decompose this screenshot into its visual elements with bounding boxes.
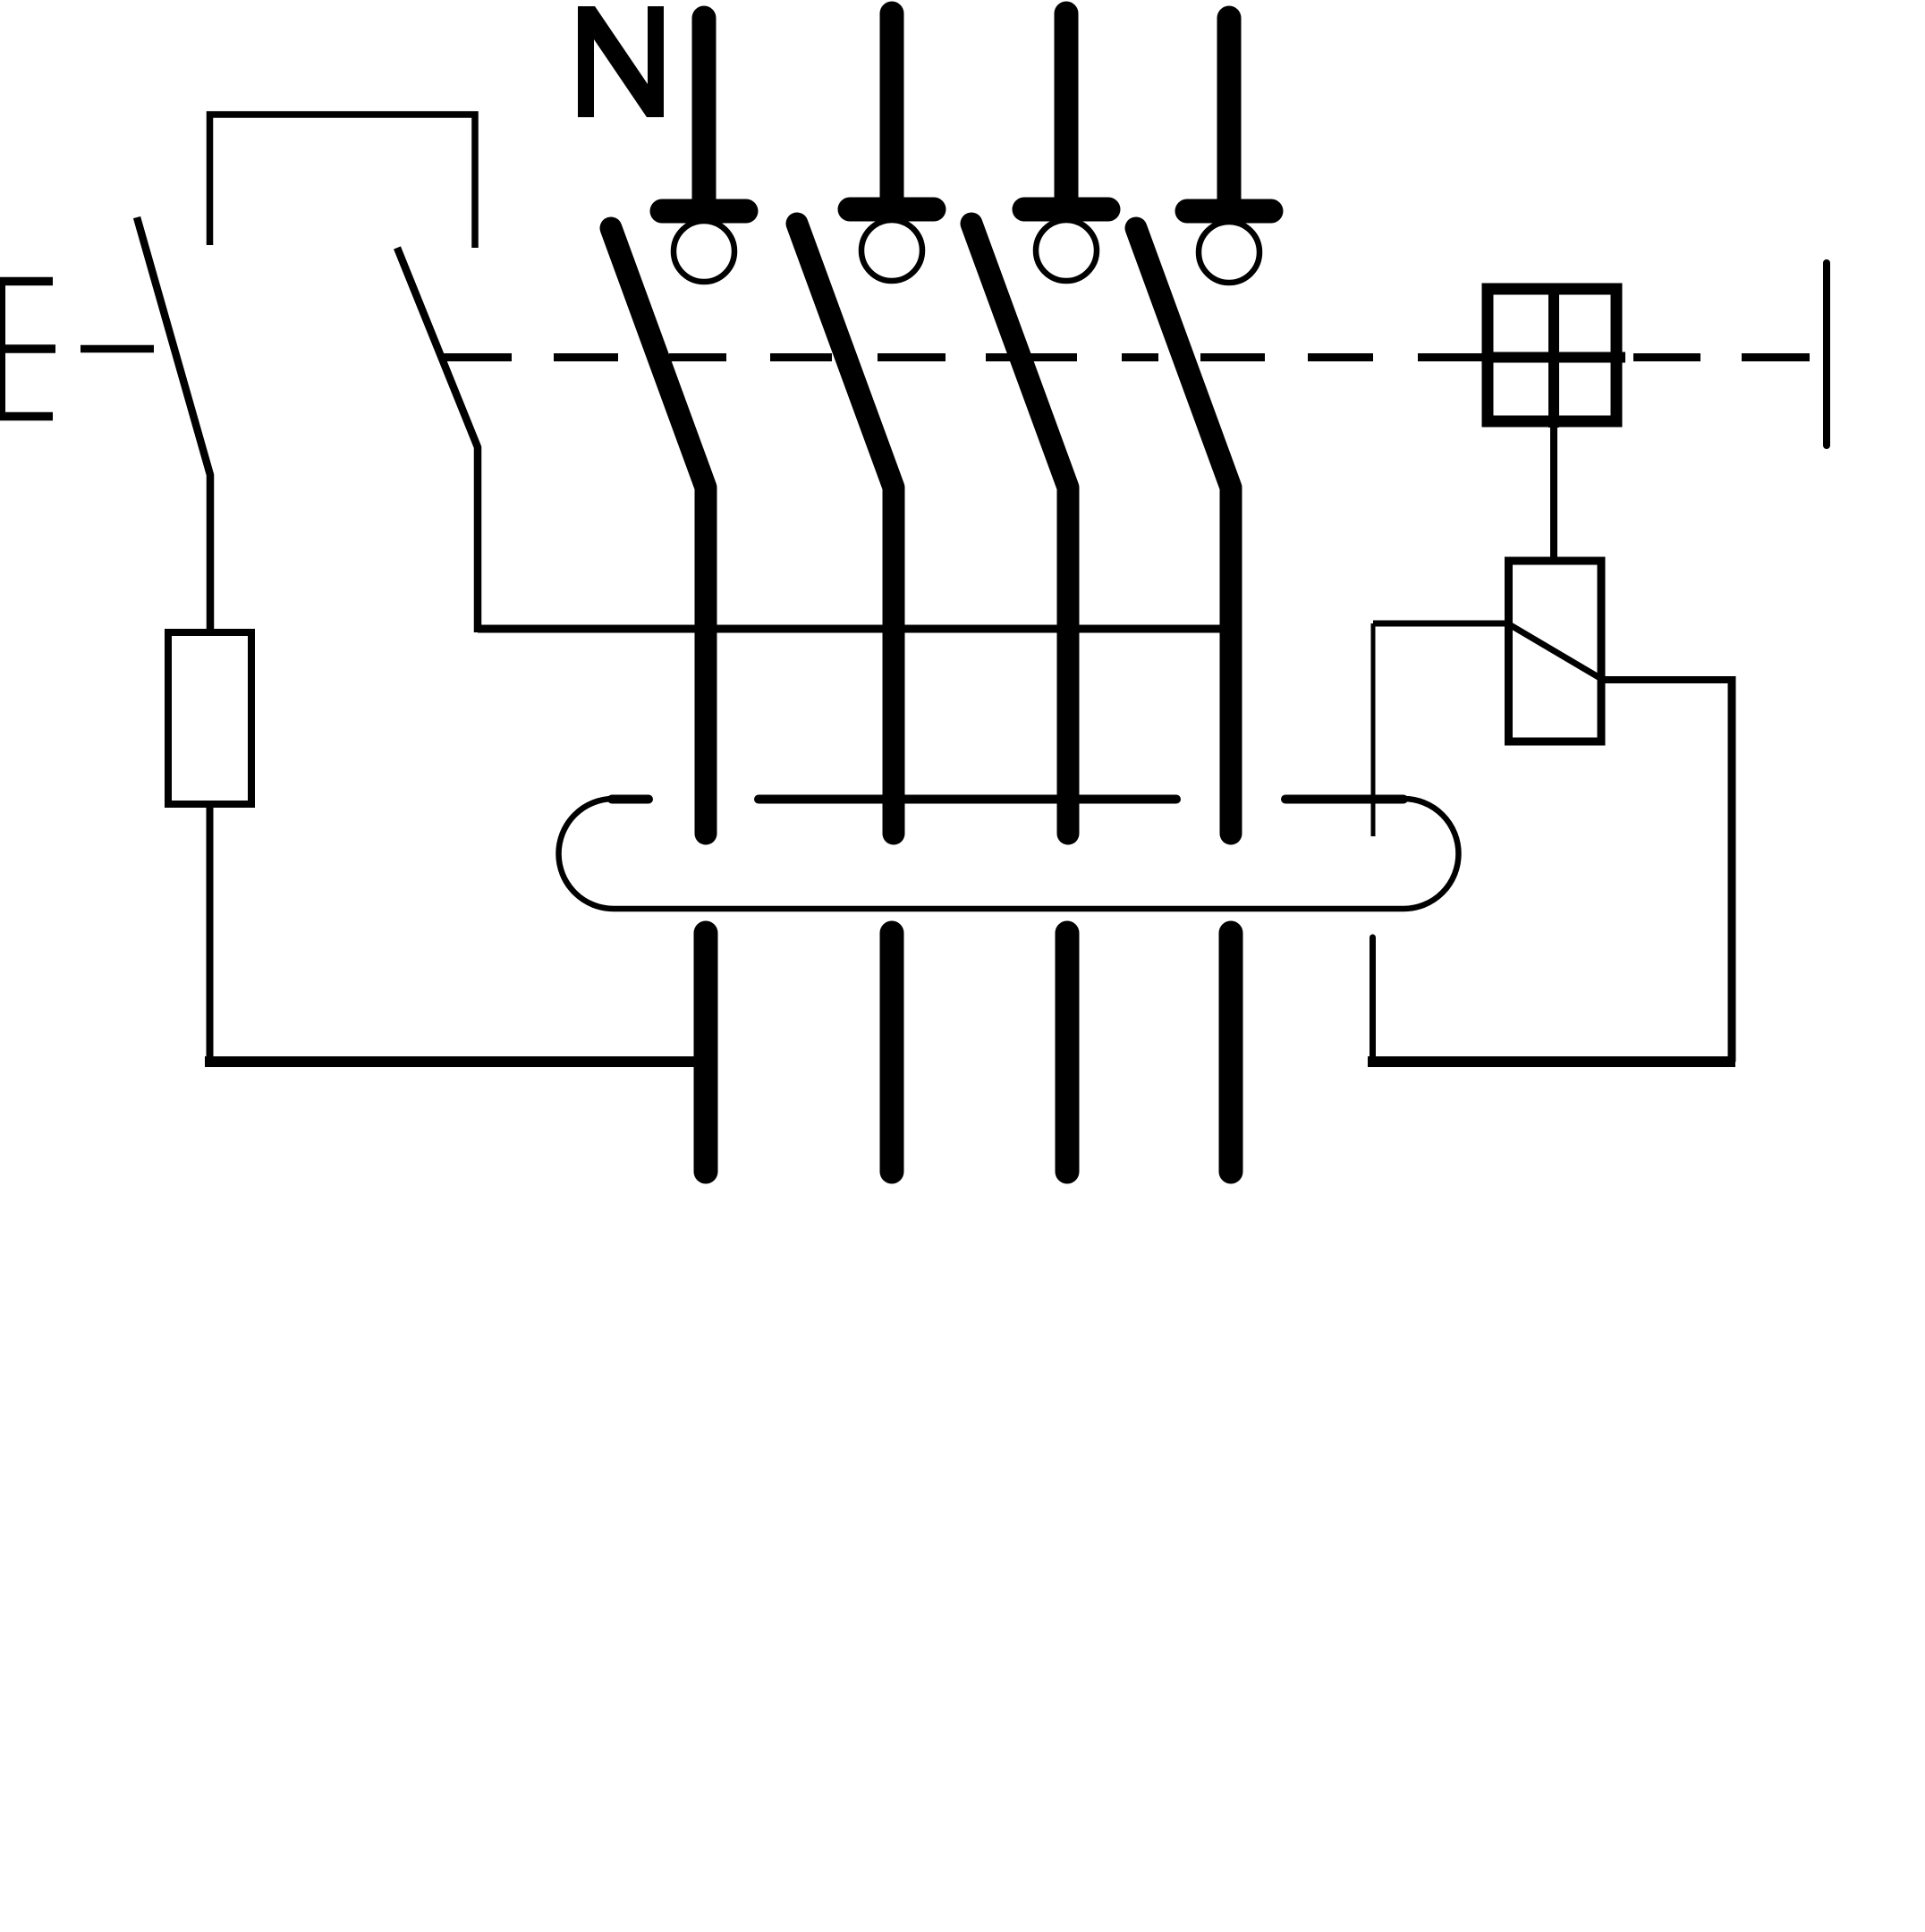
- test switch blade S1: [137, 217, 210, 632]
- pole 4 terminal bar: [1187, 199, 1271, 224]
- wire R1 bottom down: [207, 804, 214, 1062]
- wire relay output: [1601, 676, 1732, 683]
- wire S2 output to pole 4: [478, 625, 1231, 633]
- toroid core CT body: [559, 799, 1459, 909]
- dashed linkage E to test blade: [81, 345, 154, 353]
- wire bottom right: [1368, 1056, 1735, 1067]
- CT top chord segment right: [1285, 795, 1403, 804]
- dashed linkage line pole section: [443, 353, 1810, 361]
- pole 1 terminal bar: [662, 199, 746, 224]
- CT top chord segment middle: [759, 795, 1176, 804]
- pole 2 switch blade: [797, 224, 894, 834]
- pole 3 switch blade: [971, 224, 1068, 834]
- relay contact diagonal: [1509, 624, 1603, 680]
- resistor R1 (test circuit): [168, 632, 251, 804]
- pole 1 switch blade: [611, 228, 706, 834]
- pole 2 clamp circle: [861, 220, 922, 281]
- test button TB square: [1488, 289, 1616, 421]
- pole 4 load lead: [1219, 933, 1243, 1172]
- actuator terminal bar: [1823, 263, 1830, 445]
- wire test button to relay: [1550, 428, 1557, 564]
- pole 3 terminal bar: [1024, 198, 1108, 222]
- pole 1 clamp circle: [674, 221, 734, 282]
- pole 4 clamp circle: [1199, 222, 1259, 283]
- test button cross vertical: [1548, 284, 1559, 428]
- CT secondary lower stub: [1370, 937, 1376, 1062]
- pole 1 load lead: [694, 933, 718, 1172]
- pole 3 supply lead: [1055, 13, 1079, 204]
- linkage top bracket: [210, 114, 476, 248]
- pole 4 supply lead: [1217, 18, 1242, 206]
- auxiliary switch blade S2: [397, 248, 478, 632]
- pole 4 switch blade: [1136, 228, 1231, 834]
- pole 1 supply lead: [692, 18, 717, 206]
- pole 3 load lead: [1056, 933, 1080, 1172]
- wire relay input: [1373, 621, 1506, 627]
- pole 2 supply lead: [880, 13, 904, 204]
- letter E (test label): [0, 277, 55, 420]
- pole 2 terminal bar: [850, 198, 934, 222]
- test button cross horizontal: [1482, 352, 1625, 363]
- pole 2 load lead: [880, 933, 904, 1172]
- CT secondary upper stub: [1371, 623, 1376, 836]
- label N (neutral): [578, 6, 664, 117]
- CT top chord segment left: [612, 795, 649, 804]
- wire right side down: [1728, 676, 1736, 1062]
- pole 3 clamp circle: [1036, 220, 1097, 281]
- wire bottom left to pole 1: [205, 1056, 707, 1067]
- trip relay K1 box: [1509, 561, 1602, 741]
